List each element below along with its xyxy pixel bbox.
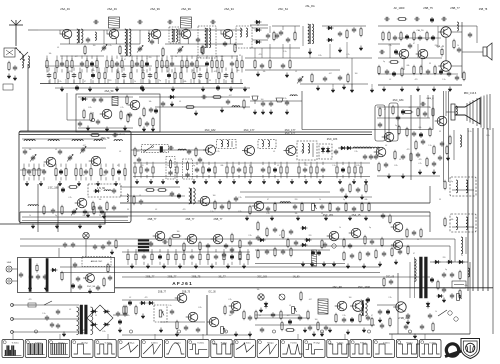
diode D13 <box>51 268 58 272</box>
capacitor C27 <box>281 63 285 69</box>
capacitor F2_0 <box>47 73 51 79</box>
wire tick <box>107 334 109 339</box>
wire ladder2 <box>120 55 160 57</box>
capacitor C99e <box>265 249 269 255</box>
tuner wire TF_23 <box>90 164 92 167</box>
coil L1b <box>28 56 30 68</box>
svg-text:220: 220 <box>141 165 144 167</box>
electrolytic C49 <box>154 108 157 114</box>
svg-text:470: 470 <box>419 159 422 161</box>
tuning slug bar 2 <box>46 259 48 292</box>
capacitor C99c <box>273 227 277 233</box>
IF can T12 <box>258 140 276 149</box>
IF capacitor F3_46 <box>321 167 325 173</box>
resistor F2_22 <box>142 71 144 80</box>
ground <box>96 181 100 186</box>
svg-text:10k: 10k <box>263 71 266 73</box>
resistor R41 <box>90 112 92 122</box>
wire <box>377 304 396 306</box>
wire <box>12 268 18 270</box>
wire <box>22 138 106 140</box>
capacitor C116 <box>366 315 370 321</box>
svg-text:5p: 5p <box>451 181 453 183</box>
wire F1_17 <box>96 56 98 59</box>
core bars <box>138 240 149 252</box>
svg-text:.047: .047 <box>74 56 77 58</box>
svg-text:220: 220 <box>309 235 312 237</box>
capacitor F2_24 <box>148 73 152 79</box>
capacitor C34 <box>393 35 397 41</box>
tuner wire TF_33 <box>124 164 126 167</box>
wire <box>377 117 430 119</box>
wire <box>255 317 310 319</box>
resistor F1_26 <box>131 59 133 69</box>
resistor R43 <box>127 113 129 123</box>
svg-text:2SA_49: 2SA_49 <box>107 7 117 11</box>
capacitor F1_40 <box>170 61 174 67</box>
ground <box>253 110 257 115</box>
coil L22 <box>178 149 186 150</box>
ground <box>62 332 66 337</box>
capacitor C134b <box>116 311 120 317</box>
capacitor C39b <box>408 43 412 49</box>
wire under bus <box>55 87 250 89</box>
wire seg y44 <box>60 43 140 45</box>
capacitor C42d <box>457 47 461 53</box>
ground <box>387 174 391 179</box>
capacitor C29b <box>275 33 279 39</box>
ground <box>204 179 208 184</box>
wire ladder3 <box>45 65 98 67</box>
resistor R67 <box>68 186 78 189</box>
diode D8 <box>346 146 353 150</box>
capacitor C105b <box>36 274 40 280</box>
svg-text:2SB_77: 2SB_77 <box>146 276 156 279</box>
electrolytic F2_10 <box>91 73 94 79</box>
capacitor C118 <box>271 312 275 318</box>
resistor R86 <box>183 242 185 252</box>
fuse F1 <box>28 303 36 307</box>
IF wire F3_31 <box>268 162 270 165</box>
svg-text:OC_30: OC_30 <box>208 292 216 294</box>
wire <box>282 44 284 58</box>
ground <box>448 87 452 92</box>
wire <box>272 25 300 27</box>
wire F1_59 <box>231 56 233 59</box>
bus line B3 <box>20 238 455 240</box>
wire <box>198 79 200 84</box>
electrolytic F1_32 <box>145 61 148 67</box>
ground <box>232 179 236 184</box>
svg-text:5p: 5p <box>395 125 397 127</box>
svg-text:2.2k: 2.2k <box>108 45 111 47</box>
ground <box>25 181 29 186</box>
svg-text:2.2k: 2.2k <box>388 297 391 299</box>
switch box <box>18 258 115 293</box>
resistor R29 <box>347 73 349 83</box>
wire VR_31 <box>247 249 249 252</box>
tuner capacitor TF_20 <box>84 169 88 175</box>
tuner electrolytic TF_30 <box>117 169 120 175</box>
resistor R111c <box>317 321 319 331</box>
resistor R23 <box>346 29 348 39</box>
resistor VR_30 <box>247 252 249 262</box>
wire F2_25 <box>149 68 151 71</box>
resistor R92 <box>381 237 383 247</box>
wire <box>121 58 123 61</box>
wire <box>98 79 100 84</box>
wire <box>133 162 370 164</box>
svg-text:100: 100 <box>177 231 180 233</box>
svg-text:V 20ms: V 20ms <box>12 343 19 345</box>
resistor R50 <box>432 107 434 117</box>
wire F2_1 <box>48 68 50 71</box>
wire <box>332 84 334 87</box>
vert hatch bar <box>312 250 317 266</box>
IF wire F3_7 <box>152 162 154 165</box>
svg-text:.047: .047 <box>148 242 151 244</box>
ground <box>226 264 230 269</box>
bus line B2 <box>20 211 430 213</box>
IF resistor F3_2 <box>140 165 142 175</box>
svg-text:.02: .02 <box>129 297 131 299</box>
ground <box>303 328 307 333</box>
resistor R111d <box>281 321 283 331</box>
resistor R89l <box>407 245 409 255</box>
ground <box>149 179 153 184</box>
ground <box>304 179 308 184</box>
wire F1_55 <box>216 56 218 59</box>
waveform box W12 <box>257 340 278 358</box>
wire F2_19 <box>123 68 125 71</box>
svg-text:2.2k: 2.2k <box>238 197 241 199</box>
resistor R69 <box>106 201 108 211</box>
svg-text:.01: .01 <box>139 195 141 197</box>
capacitor C53 <box>261 101 265 107</box>
ground <box>382 87 386 92</box>
wire <box>469 262 471 334</box>
svg-text:5p: 5p <box>343 199 345 201</box>
resistor R96c <box>239 250 241 260</box>
svg-text:2SB_77: 2SB_77 <box>148 218 158 221</box>
transistor Q15 <box>44 157 56 167</box>
wire F2_3 <box>54 68 56 71</box>
trimmer CT2 <box>137 46 143 53</box>
svg-text:1k: 1k <box>29 215 31 217</box>
peaking coil L18 <box>127 194 128 202</box>
waveform box W14 <box>304 340 325 358</box>
wire <box>86 58 88 61</box>
transformer T4 <box>77 29 83 43</box>
tuner capacitor TF_26 <box>104 169 108 175</box>
wire <box>389 44 391 58</box>
resistor VR_24 <box>223 252 225 262</box>
capacitor C98 <box>294 240 298 246</box>
svg-text:2SB_75: 2SB_75 <box>192 276 202 279</box>
ground <box>118 328 122 333</box>
tuner capacitor C70 <box>100 209 104 215</box>
resistor R85 <box>171 235 181 238</box>
ground <box>312 332 316 337</box>
transistor Q24 <box>185 234 197 244</box>
wire mid a <box>139 96 250 98</box>
svg-text:10k: 10k <box>29 149 32 151</box>
capacitor C42 <box>468 32 472 38</box>
capacitor C111 <box>248 315 252 321</box>
svg-text:100: 100 <box>261 99 264 101</box>
electrolytic C65d <box>401 109 404 115</box>
wire <box>78 96 133 98</box>
capacitor C99i <box>382 251 386 257</box>
wire <box>90 79 92 84</box>
svg-text:68k: 68k <box>465 285 468 287</box>
box AGC <box>76 94 160 132</box>
resistor R81 <box>368 202 370 212</box>
capacitor C42b <box>418 35 422 41</box>
resistor F2_34 <box>193 71 195 80</box>
svg-text:AV_1000: AV_1000 <box>394 6 405 10</box>
capacitor C104c <box>222 252 226 258</box>
svg-text:220: 220 <box>109 80 112 82</box>
wire seg y44b <box>165 43 243 45</box>
electrolytic C129d <box>430 277 433 283</box>
resistor R72 <box>157 189 167 192</box>
svg-text:10k: 10k <box>229 315 232 317</box>
svg-text:470: 470 <box>407 149 410 151</box>
terminal cup <box>252 96 258 104</box>
capacitor C63 <box>384 162 388 168</box>
wire <box>269 44 271 58</box>
IF wire F3_39 <box>298 162 300 165</box>
capacitor C65b <box>378 122 382 128</box>
capacitor C109 <box>170 309 174 315</box>
svg-text:470: 470 <box>259 54 262 56</box>
ground <box>413 334 417 339</box>
ground <box>432 170 436 175</box>
terminal <box>91 112 94 122</box>
capacitor C91 <box>340 187 344 193</box>
transistor Q16 <box>89 156 101 166</box>
transistor Q4 <box>179 29 191 39</box>
diode D10 <box>94 189 101 193</box>
logo shield <box>461 339 480 359</box>
tuner box <box>19 131 131 223</box>
IF wire F3_19 <box>226 162 228 165</box>
capacitor C25 <box>352 27 356 33</box>
wire F2_15 <box>104 68 106 71</box>
hold pot P4 <box>221 327 226 334</box>
resistor R27 <box>289 59 291 69</box>
AC line 2 <box>12 318 79 320</box>
resistor R60 <box>403 111 413 114</box>
resistor R105 <box>255 310 257 320</box>
ground <box>178 264 182 269</box>
svg-text:2SA_99: 2SA_99 <box>150 7 160 11</box>
IF wire F3_49 <box>336 162 338 165</box>
electrolytic C11 <box>216 85 219 91</box>
capacitor C121 <box>442 272 446 278</box>
wire <box>409 262 411 298</box>
IF capacitor F3_4 <box>145 167 149 173</box>
capacitor F1_58 <box>230 61 234 67</box>
capacitor C33 <box>441 17 447 21</box>
resistor R83 <box>365 183 367 193</box>
wire <box>462 51 483 53</box>
resistor R28 <box>311 73 313 83</box>
resistor F2_44 <box>231 71 233 80</box>
svg-text:47: 47 <box>83 175 85 177</box>
svg-text:1.5k: 1.5k <box>91 70 94 72</box>
capacitor C58 <box>440 141 444 147</box>
svg-text:33: 33 <box>127 209 129 211</box>
svg-text:33: 33 <box>439 131 441 133</box>
IF resistor F3_44 <box>316 165 318 175</box>
damper diode D17 <box>434 260 441 264</box>
power transformer T14 <box>77 305 93 335</box>
wire <box>252 27 268 29</box>
wire <box>28 29 38 31</box>
ground <box>141 87 145 92</box>
transistor Q21 <box>75 198 87 208</box>
sound can A <box>375 105 385 141</box>
capacitor C23 <box>286 37 290 43</box>
IF wire F3_9 <box>176 162 178 165</box>
capacitor C65f <box>438 155 442 161</box>
circled point <box>34 330 37 333</box>
ground <box>194 111 198 116</box>
wire F2_45 <box>231 68 233 71</box>
resistor R111b <box>371 317 373 327</box>
resistor F1_12 <box>86 59 88 69</box>
tuner coil L11 <box>48 140 59 141</box>
resistor F1_30 <box>141 59 143 69</box>
IF wire F3_23 <box>238 162 240 165</box>
resistor R66b <box>195 147 197 157</box>
svg-text:.01: .01 <box>259 315 261 317</box>
svg-text:2SC_96: 2SC_96 <box>87 286 96 288</box>
capacitor C93a <box>149 241 153 247</box>
capacitor C95 <box>224 243 228 249</box>
capacitor C66 <box>23 149 27 155</box>
electrolytic C10 <box>140 85 143 91</box>
tuner wire <box>22 216 128 218</box>
bus line B4 <box>20 245 450 247</box>
resistor R75 <box>249 205 251 215</box>
electrolytic C9 <box>75 85 78 91</box>
resistor R89h <box>343 251 345 261</box>
wire <box>73 79 75 84</box>
resistor R40 <box>83 109 85 119</box>
svg-text:.047: .047 <box>213 71 216 73</box>
svg-text:8.2k: 8.2k <box>88 107 91 109</box>
balun box T1 <box>4 48 15 57</box>
capacitor C59 <box>412 131 416 137</box>
wire F2_7 <box>73 68 75 71</box>
wire <box>377 106 430 108</box>
wire tick <box>391 334 393 339</box>
svg-text:5p: 5p <box>445 269 447 271</box>
svg-text:1.5k: 1.5k <box>468 131 471 133</box>
waveform box W7 <box>141 340 162 358</box>
wire F1_33 <box>146 56 148 59</box>
sound can B <box>389 103 398 141</box>
transistor Q13 <box>382 132 394 142</box>
tuner wire TF_21 <box>85 164 87 167</box>
resistor R48 <box>243 99 245 109</box>
svg-text:9BC_C13.6: 9BC_C13.6 <box>464 92 477 95</box>
capacitor C39 <box>379 50 385 54</box>
IF can T2 <box>109 17 120 28</box>
resistor R108 <box>359 313 361 323</box>
svg-text:.02: .02 <box>69 309 71 311</box>
IF wire F3_33 <box>274 162 276 165</box>
ground <box>151 127 155 132</box>
capacitor C96 <box>348 243 352 249</box>
wire F2_29 <box>168 68 170 71</box>
waveform box W2 <box>25 340 46 358</box>
IF resistor F3_6 <box>152 165 154 175</box>
wire <box>454 239 456 262</box>
coil L8 <box>456 106 457 114</box>
svg-text:.01: .01 <box>321 213 323 215</box>
capacitor C3 <box>167 20 173 24</box>
resistor F1_16 <box>96 59 98 69</box>
wire F1_5 <box>61 56 63 59</box>
svg-text:UHF: UHF <box>7 262 12 264</box>
diode D20b <box>437 294 444 298</box>
tuner wire TF_1 <box>23 164 25 167</box>
trap pot box <box>142 145 169 153</box>
resistor F2_32 <box>180 71 182 80</box>
svg-text:4.7k: 4.7k <box>418 163 421 165</box>
diode D11b <box>301 243 308 247</box>
tuner resistor TF_18 <box>80 167 82 177</box>
resistor R111 <box>285 329 295 332</box>
capacitor C24 <box>338 31 342 37</box>
resistor R38b <box>413 31 415 41</box>
transistor Q32 <box>207 317 219 327</box>
wire F1_21 <box>111 56 113 59</box>
capacitor C76 <box>369 154 373 160</box>
svg-text:.047: .047 <box>82 145 85 147</box>
wire VR_29 <box>239 249 241 252</box>
tuner coil L10 <box>24 140 35 141</box>
svg-text:.01: .01 <box>295 71 297 73</box>
ground <box>135 179 139 184</box>
capacitor C94 <box>162 240 168 244</box>
wire <box>71 58 73 61</box>
resistor R4 <box>202 45 204 55</box>
tuner wire TF_25 <box>100 164 102 167</box>
svg-text:470: 470 <box>415 79 418 81</box>
IF wire F3_17 <box>214 162 216 165</box>
ground <box>39 181 43 186</box>
wire <box>378 57 442 59</box>
IF resistor F3_36 <box>286 165 288 175</box>
coil L16 <box>362 147 371 149</box>
svg-text:220: 220 <box>149 57 152 59</box>
wire F1_13 <box>86 56 88 59</box>
capacitor C102 <box>63 242 67 248</box>
circled plus <box>332 244 336 248</box>
vert line <box>206 295 208 335</box>
svg-text:A F J 6 1: A F J 6 1 <box>172 281 192 287</box>
circled point <box>82 330 85 333</box>
wire <box>173 79 175 84</box>
IF resistor F3_12 <box>202 165 204 175</box>
capacitor C47 <box>112 133 118 137</box>
electrolytic C107 <box>71 283 74 289</box>
